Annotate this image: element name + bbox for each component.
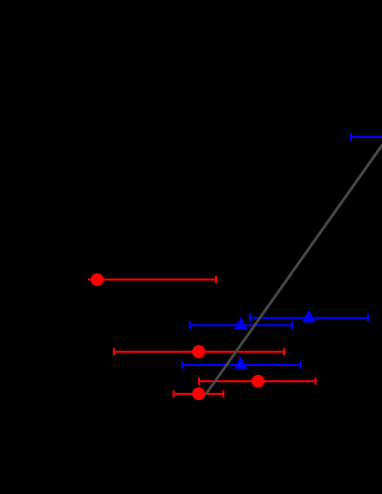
blue point 3 triangle marker (234, 356, 247, 369)
red point 3 error bar (199, 378, 316, 385)
red point 2 error bar (114, 348, 284, 355)
blue point 1 error bar (190, 321, 292, 329)
blue point 1 triangle marker (234, 317, 247, 330)
red point 4 error bar (174, 390, 224, 397)
blue point 2 triangle marker (302, 310, 315, 323)
blue point 4 error bar (marker off right edge) (351, 133, 382, 141)
blue point 3 error bar (182, 361, 301, 369)
red point 1 error bar (88, 276, 216, 283)
red point 1 marker (91, 273, 104, 286)
gray diagonal reference line (206, 145, 382, 395)
red point 2 marker (192, 345, 205, 358)
blue point 2 error bar (250, 314, 368, 322)
red point 3 marker (252, 375, 265, 388)
red point 4 marker (192, 387, 205, 400)
